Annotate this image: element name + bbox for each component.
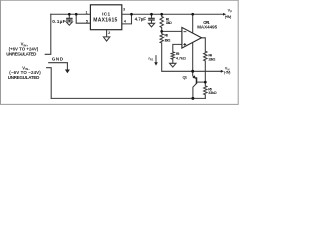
svg-text:UNREGULATED: UNREGULATED xyxy=(6,52,37,57)
svg-text:0.1µF: 0.1µF xyxy=(52,19,65,25)
svg-text:GND: GND xyxy=(52,56,64,61)
svg-text:P: P xyxy=(230,9,232,13)
svg-text:5: 5 xyxy=(86,20,88,24)
svg-text:R2: R2 xyxy=(176,52,180,56)
svg-text:IC1: IC1 xyxy=(102,12,110,17)
svg-text:4.7kΩ: 4.7kΩ xyxy=(176,57,186,61)
svg-text:R1: R1 xyxy=(150,57,154,61)
svg-text:(−5V): (−5V) xyxy=(224,70,230,74)
svg-text:10kΩ: 10kΩ xyxy=(166,21,172,25)
svg-text:MAX1615: MAX1615 xyxy=(93,18,117,24)
svg-text:4.7µF: 4.7µF xyxy=(135,16,147,21)
svg-text:MAX4495: MAX4495 xyxy=(197,25,217,30)
svg-text:3: 3 xyxy=(123,8,125,12)
svg-text:10kΩ: 10kΩ xyxy=(164,39,170,43)
svg-text:2: 2 xyxy=(108,31,110,35)
svg-text:(+5V): (+5V) xyxy=(225,15,231,19)
svg-text:33kΩ: 33kΩ xyxy=(208,91,216,95)
svg-text:22kΩ: 22kΩ xyxy=(208,58,215,62)
svg-text:R3: R3 xyxy=(164,34,168,38)
svg-text:1: 1 xyxy=(86,10,88,14)
svg-text:UNREGULATED: UNREGULATED xyxy=(8,75,40,80)
